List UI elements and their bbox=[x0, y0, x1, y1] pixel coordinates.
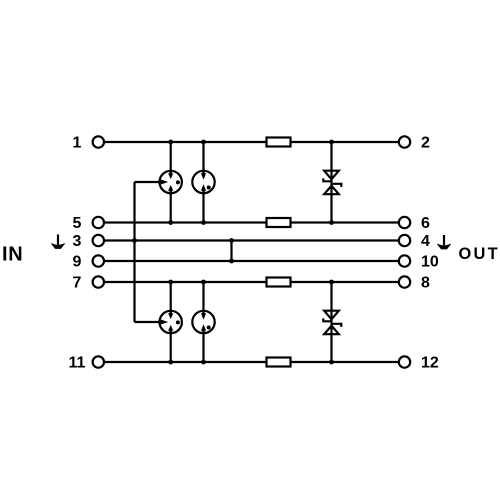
svg-text:6: 6 bbox=[421, 215, 430, 232]
wire line 5 to 6 bbox=[104, 221, 398, 223]
svg-text:1: 1 bbox=[73, 135, 82, 152]
svg-text:3: 3 bbox=[73, 233, 82, 250]
wire line 1 to 2 bbox=[104, 141, 398, 143]
wire GDT drop x=203.5 top bbox=[202, 142, 204, 223]
wire GDT drop x=170.7 top bbox=[170, 142, 172, 223]
svg-text:12: 12 bbox=[421, 355, 439, 372]
TVS diode top bbox=[323, 171, 341, 195]
gas discharge tube 3-electrode top bbox=[158, 169, 182, 194]
junction dot line 9 bbox=[229, 259, 234, 264]
svg-text:10: 10 bbox=[421, 254, 439, 271]
wire TVS drop bottom bbox=[330, 282, 332, 362]
terminal 7 bbox=[93, 276, 104, 287]
gas discharge tube 2-electrode bottom bbox=[192, 309, 214, 334]
resistor line 7-8 bbox=[267, 278, 291, 287]
wire line 11 to 12 bbox=[104, 361, 398, 363]
wire line 9 to 10 bbox=[104, 260, 398, 262]
ground symbol left bbox=[51, 235, 66, 249]
terminal 11 bbox=[93, 356, 104, 367]
terminal 8 bbox=[399, 276, 410, 287]
wire jumper line3 to line9 bbox=[230, 241, 232, 262]
resistor line 11-12 bbox=[267, 358, 291, 367]
junction dots line 1 bbox=[168, 140, 334, 145]
resistor line 5-6 bbox=[267, 218, 291, 227]
svg-text:7: 7 bbox=[73, 275, 82, 292]
terminal 3 bbox=[93, 235, 104, 246]
wire line 3 to 4 bbox=[104, 239, 398, 241]
svg-text:9: 9 bbox=[73, 254, 82, 271]
terminal 2 bbox=[399, 136, 410, 147]
terminal 12 bbox=[399, 356, 410, 367]
svg-text:5: 5 bbox=[73, 215, 82, 232]
terminal 10 bbox=[399, 255, 410, 266]
wire vertical ground bus bbox=[135, 182, 160, 322]
junction dots line 7 bbox=[168, 280, 334, 285]
svg-text:11: 11 bbox=[69, 355, 86, 372]
terminal 6 bbox=[399, 217, 410, 228]
resistor line 1-2 bbox=[267, 138, 291, 147]
gas discharge tube 3-electrode bottom bbox=[158, 309, 182, 334]
terminal 9 bbox=[93, 255, 104, 266]
wire GDT drop x=203.5 bottom bbox=[202, 282, 204, 362]
terminal 5 bbox=[93, 217, 104, 228]
svg-text:OUT: OUT bbox=[459, 245, 500, 263]
svg-text:4: 4 bbox=[421, 233, 430, 250]
terminal 4 bbox=[399, 235, 410, 246]
ground symbol right bbox=[437, 235, 452, 249]
gas discharge tube 2-electrode top bbox=[192, 169, 214, 194]
wire line 7 to 8 bbox=[104, 281, 398, 283]
TVS diode bottom bbox=[323, 311, 341, 335]
wire TVS drop top bbox=[330, 142, 332, 223]
junction dots line 5 bbox=[168, 220, 334, 225]
wire GDT drop x=170.7 bottom bbox=[170, 282, 172, 362]
svg-text:2: 2 bbox=[421, 135, 430, 152]
svg-text:8: 8 bbox=[421, 275, 430, 292]
junction dots line 3 bbox=[132, 238, 234, 243]
junction dots line 11 bbox=[168, 360, 334, 365]
svg-text:IN: IN bbox=[2, 243, 23, 265]
terminal 1 bbox=[93, 136, 104, 147]
